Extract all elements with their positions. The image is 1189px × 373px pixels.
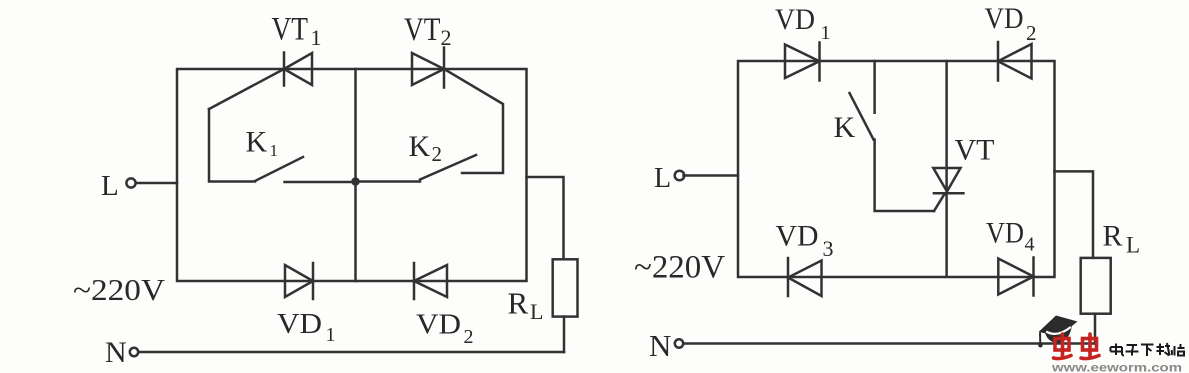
svg-text:~220V: ~220V xyxy=(634,250,725,286)
svg-text:VD: VD xyxy=(416,309,461,341)
svg-text:R: R xyxy=(508,286,529,321)
svg-text:K: K xyxy=(246,126,268,159)
svg-text:2: 2 xyxy=(441,25,452,50)
svg-text:VD: VD xyxy=(775,3,815,36)
svg-text:1: 1 xyxy=(326,324,336,346)
svg-text:3: 3 xyxy=(823,236,834,261)
svg-text:1: 1 xyxy=(270,141,279,160)
svg-text:L: L xyxy=(1126,233,1140,258)
svg-text:2: 2 xyxy=(432,142,443,166)
svg-text:2: 2 xyxy=(464,326,474,348)
svg-text:VT: VT xyxy=(272,12,309,48)
svg-text:VT: VT xyxy=(955,134,995,167)
svg-text:K: K xyxy=(409,130,431,163)
svg-text:N: N xyxy=(105,336,127,369)
svg-text:1: 1 xyxy=(311,25,322,50)
svg-text:R: R xyxy=(1103,220,1123,253)
svg-text:1: 1 xyxy=(821,22,831,44)
svg-text:VT: VT xyxy=(404,12,441,48)
svg-text:4: 4 xyxy=(1025,234,1035,256)
svg-text:VD: VD xyxy=(985,2,1024,35)
svg-text:2: 2 xyxy=(1026,21,1037,45)
svg-text:N: N xyxy=(649,328,671,363)
svg-text:VD: VD xyxy=(776,220,819,253)
svg-text:www.eeworm.com: www.eeworm.com xyxy=(1051,363,1182,373)
svg-text:L: L xyxy=(530,299,543,324)
svg-text:L: L xyxy=(101,170,119,202)
svg-text:L: L xyxy=(654,163,671,194)
svg-text:~220V: ~220V xyxy=(73,272,166,307)
svg-text:VD: VD xyxy=(986,217,1024,250)
svg-text:VD: VD xyxy=(277,308,322,340)
svg-text:K: K xyxy=(834,111,856,144)
